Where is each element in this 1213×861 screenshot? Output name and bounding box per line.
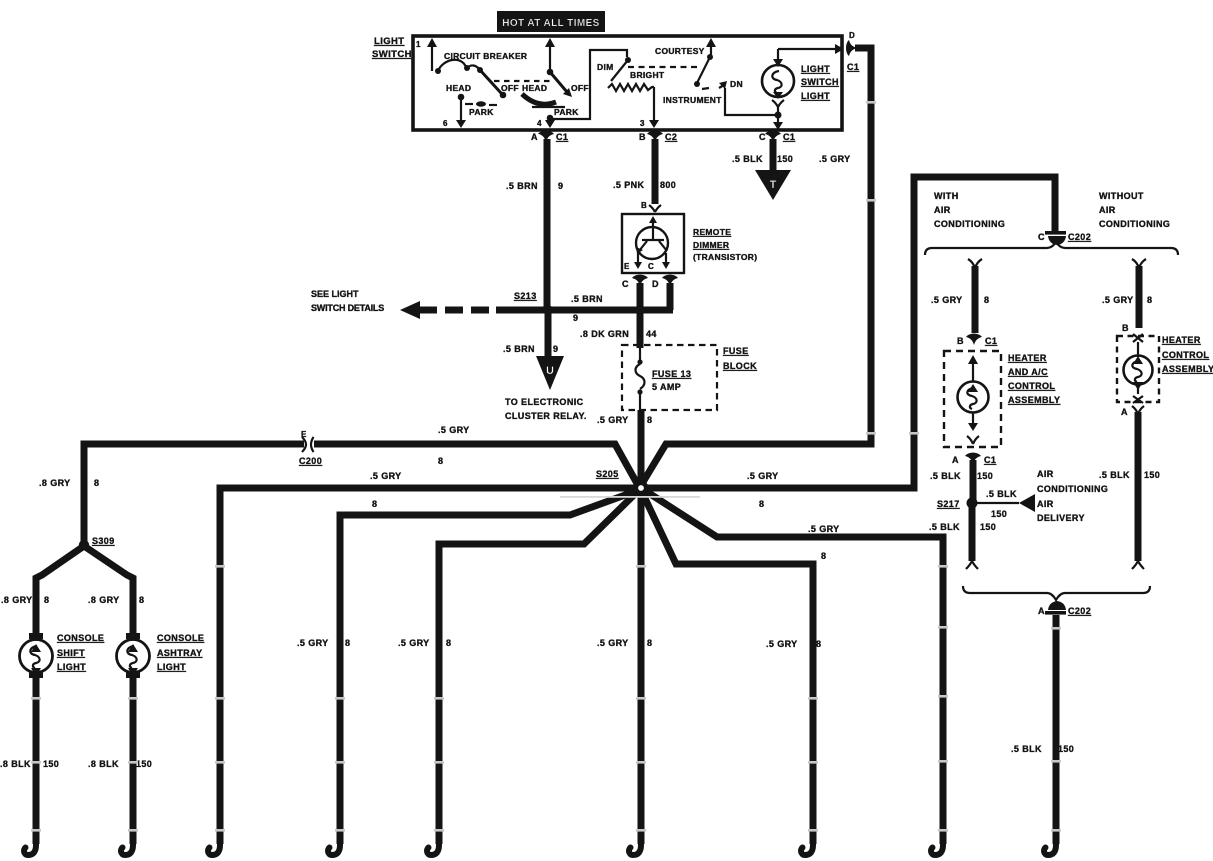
svg-text:BRIGHT: BRIGHT [630, 70, 665, 80]
svg-text:150: 150 [1144, 470, 1160, 480]
svg-text:8: 8 [759, 499, 764, 509]
svg-text:C: C [622, 279, 629, 289]
pin C connector C1 [759, 131, 795, 142]
svg-text:8: 8 [821, 551, 826, 561]
transistor labels [693, 227, 757, 262]
svg-text:ASSEMBLY: ASSEMBLY [1162, 364, 1213, 374]
svg-text:T: T [770, 179, 777, 191]
bottom hook wire ends [24, 840, 1056, 855]
fuse labels [652, 369, 691, 392]
wire S217 down .5 BLK [966, 506, 978, 569]
link dashed dimmer-courtesy [628, 66, 700, 68]
svg-text:(TRANSISTOR): (TRANSISTOR) [693, 252, 757, 262]
bottom riser labels .5 GRY 8 [297, 638, 350, 648]
svg-text:.5 GRY: .5 GRY [819, 154, 851, 164]
svg-text:LIGHT: LIGHT [374, 36, 405, 47]
svg-text:S309: S309 [92, 536, 115, 546]
svg-text:C1: C1 [847, 62, 859, 72]
svg-text:C1: C1 [556, 132, 568, 142]
svg-text:ASHTRAY: ASHTRAY [157, 648, 202, 658]
svg-text:.5 BRN: .5 BRN [503, 344, 535, 354]
svg-text:150: 150 [991, 509, 1007, 519]
svg-text:AIR: AIR [1037, 469, 1054, 479]
pin B connector C2 [639, 131, 677, 142]
svg-text:8: 8 [44, 595, 49, 605]
light switch label [372, 36, 412, 60]
label .5 GRY 8 [808, 524, 840, 561]
scan fold ticks [31, 101, 1061, 832]
svg-text:.5 GRY: .5 GRY [747, 471, 779, 481]
svg-text:.5 GRY: .5 GRY [438, 425, 470, 435]
svg-text:5 AMP: 5 AMP [652, 382, 681, 392]
svg-text:150: 150 [977, 471, 993, 481]
svg-text:SEE LIGHT: SEE LIGHT [311, 289, 359, 299]
wire S217 to air delivery arrow [976, 494, 1035, 512]
label .5 BRN 9 [503, 344, 558, 354]
svg-text:S205: S205 [596, 469, 619, 479]
svg-text:.5 GRY: .5 GRY [398, 638, 430, 648]
svg-text:B: B [641, 201, 647, 210]
svg-text:SWITCH: SWITCH [801, 77, 839, 87]
svg-text:ASSEMBLY: ASSEMBLY [1008, 395, 1060, 405]
svg-text:.5 GRY: .5 GRY [370, 471, 402, 481]
svg-text:A: A [952, 455, 959, 465]
connector C202 pin C [1038, 231, 1091, 245]
svg-text:DN: DN [730, 79, 743, 89]
heater control labels [1162, 335, 1213, 374]
svg-text:.5 GRY: .5 GRY [931, 295, 963, 305]
svg-text:D: D [652, 279, 659, 289]
light switch box [413, 36, 842, 130]
dimmer rheostat [597, 57, 665, 128]
svg-text:C2: C2 [665, 132, 677, 142]
svg-text:AIR: AIR [934, 205, 951, 215]
svg-text:AIR: AIR [1037, 499, 1054, 509]
svg-text:4: 4 [537, 119, 542, 128]
label .5 BRN 9 right of S213 [571, 294, 603, 323]
lamp label [801, 64, 839, 101]
wire S205 lower-left 2 to x439 riser [439, 492, 637, 844]
svg-text:8: 8 [438, 456, 443, 466]
courtesy switch [655, 38, 775, 115]
svg-text:CONSOLE: CONSOLE [57, 633, 104, 643]
svg-text:CONDITIONING: CONDITIONING [1099, 219, 1170, 229]
svg-text:8: 8 [94, 478, 99, 488]
svg-text:CONDITIONING: CONDITIONING [1037, 484, 1108, 494]
brace bottom (A C202) [963, 586, 1150, 600]
label .5 BLK 150 [929, 522, 996, 532]
pole2 switch [522, 38, 627, 128]
svg-text:C1: C1 [985, 336, 997, 346]
svg-text:9: 9 [573, 313, 578, 323]
svg-text:.5 GRY: .5 GRY [808, 524, 840, 534]
wire transistor D down to S213 run [667, 283, 674, 310]
heater and a/c control assembly dashed box [944, 351, 1001, 447]
label .5 PNK 800 [613, 180, 676, 190]
fuse F13 [636, 348, 645, 410]
label .5 BLK 150 [732, 154, 793, 164]
label .5 GRY 8 on C200 wire [438, 425, 470, 466]
lamp heater control [1124, 334, 1153, 403]
svg-text:SWITCH DETAILS: SWITCH DETAILS [311, 303, 384, 313]
wire C202 down .5 BLK [1053, 615, 1060, 844]
wire S213 down .5 BRN [545, 310, 552, 358]
label .5 BLK 150 [930, 471, 993, 481]
air conditioning air delivery label [1037, 469, 1108, 523]
svg-text:1: 1 [416, 40, 421, 49]
wire pin1 to circuit breaker [427, 38, 437, 71]
lamp light switch light [762, 49, 794, 130]
lamp console ashtray light [117, 633, 150, 678]
feed label HOT AT ALL TIMES [497, 11, 605, 32]
wire S205 left horizontal to x220 riser [220, 488, 639, 844]
wire transistor C down [637, 283, 644, 348]
wire without-AC branch down [1132, 259, 1146, 328]
fuse block label [723, 346, 757, 371]
svg-text:150: 150 [1058, 744, 1074, 754]
svg-text:B: B [639, 132, 646, 142]
svg-text:.5 BLK: .5 BLK [930, 471, 961, 481]
svg-text:PARK: PARK [554, 107, 579, 117]
svg-text:CONTROL: CONTROL [1162, 350, 1209, 360]
console shift light label [57, 633, 104, 672]
wire S309 right branch to console ashtray light [84, 546, 133, 635]
wire with-AC branch down [968, 259, 982, 333]
svg-text:8: 8 [446, 638, 451, 648]
pin B connector C1 (heater a/c) [957, 334, 997, 346]
svg-text:HEAD: HEAD [522, 83, 547, 93]
pin D of transistor [652, 275, 678, 289]
svg-text:AIR: AIR [1099, 205, 1116, 215]
svg-text:3: 3 [640, 119, 645, 128]
svg-text:CLUSTER RELAY.: CLUSTER RELAY. [505, 411, 587, 421]
label .5 GRY 8 [370, 471, 402, 509]
wire S205 down x641 riser [638, 490, 645, 844]
svg-text:SWITCH: SWITCH [372, 49, 412, 60]
svg-text:C202: C202 [1068, 606, 1091, 616]
label .5 BRN 9 [506, 181, 563, 191]
label .8 BLK 150 left [0, 759, 59, 769]
svg-text:DIM: DIM [597, 62, 613, 72]
svg-text:AND A/C: AND A/C [1008, 367, 1048, 377]
svg-text:A: A [1121, 407, 1128, 417]
wire pin D down to S205 (.5 GRY) [640, 48, 871, 487]
label .5 GRY 8 [931, 295, 989, 305]
heater and a/c labels [1008, 353, 1060, 405]
svg-text:150: 150 [777, 154, 793, 164]
svg-text:8: 8 [345, 638, 350, 648]
wire .5 BRN from pin A [544, 139, 551, 307]
svg-text:PARK: PARK [469, 107, 494, 117]
svg-text:C: C [648, 262, 654, 271]
label .8 BLK 150 right [88, 759, 152, 769]
svg-text:S213: S213 [514, 291, 537, 301]
arrow U to electronic cluster relay [536, 356, 564, 390]
svg-text:COURTESY: COURTESY [655, 46, 705, 56]
wire S205 lower-right 2 to x813 riser [642, 492, 813, 844]
label .5 BLK 150 (air delivery wire) [986, 489, 1017, 519]
svg-text:.5 BLK: .5 BLK [732, 154, 763, 164]
svg-text:.5 BLK: .5 BLK [929, 522, 960, 532]
svg-text:150: 150 [43, 759, 59, 769]
svg-text:LIGHT: LIGHT [57, 662, 86, 672]
svg-text:A: A [1038, 606, 1045, 616]
svg-text:C1: C1 [783, 132, 795, 142]
wire S205 lower-left 1 to x340 riser [340, 490, 639, 844]
svg-text:WITH: WITH [934, 191, 959, 201]
S213 junction and dashed wire to left arrow [400, 301, 673, 319]
wire fuse to S205 .5 GRY [638, 410, 645, 490]
svg-text:E: E [624, 262, 630, 271]
lamp console shift light [20, 633, 53, 678]
label .5 GRY 8 [597, 415, 652, 425]
svg-text:OFF: OFF [571, 83, 589, 93]
svg-text:.8 GRY: .8 GRY [88, 595, 120, 605]
svg-text:C200: C200 [299, 456, 322, 466]
svg-text:C1: C1 [984, 455, 996, 465]
svg-text:HOT AT ALL TIMES: HOT AT ALL TIMES [502, 18, 600, 29]
label .5 BLK 150 [1099, 470, 1160, 480]
svg-text:.5 BRN: .5 BRN [506, 181, 538, 191]
svg-text:.5 GRY: .5 GRY [597, 638, 629, 648]
svg-text:.8 DK GRN: .8 DK GRN [580, 329, 629, 339]
svg-text:LIGHT: LIGHT [801, 64, 830, 74]
svg-text:LIGHT: LIGHT [801, 91, 830, 101]
svg-text:.5 GRY: .5 GRY [297, 638, 329, 648]
svg-text:TO ELECTRONIC: TO ELECTRONIC [505, 397, 584, 407]
node S205 [596, 469, 648, 495]
wire lamp to pin D [778, 44, 844, 54]
svg-text:WITHOUT: WITHOUT [1099, 191, 1144, 201]
svg-text:800: 800 [660, 180, 676, 190]
svg-text:OFF: OFF [501, 83, 519, 93]
svg-text:HEAD: HEAD [446, 83, 471, 93]
svg-text:C: C [759, 132, 766, 142]
fuse block dashed box [622, 345, 717, 410]
svg-text:.5 GRY: .5 GRY [766, 639, 798, 649]
svg-text:B: B [1122, 323, 1129, 333]
wire C200 run from S205 to S309 riser [84, 444, 639, 546]
svg-text:.5 BLK: .5 BLK [1011, 744, 1042, 754]
svg-text:D: D [849, 31, 855, 40]
svg-text:HEATER: HEATER [1162, 335, 1201, 345]
svg-text:44: 44 [646, 329, 657, 339]
svg-text:8: 8 [372, 499, 377, 509]
svg-text:.8 GRY: .8 GRY [1, 595, 33, 605]
svg-text:9: 9 [558, 181, 563, 191]
svg-text:FUSE 13: FUSE 13 [652, 369, 691, 379]
pin A connector C1 (heater a/c) [952, 453, 996, 465]
wire S205 lower-right 1 to x943 riser [644, 490, 943, 844]
remote dimmer transistor U1 [622, 201, 684, 273]
label .5 GRY 8 [747, 471, 779, 509]
label with air conditioning [934, 191, 1005, 229]
svg-text:CONDITIONING: CONDITIONING [934, 219, 1005, 229]
svg-text:.5 BRN: .5 BRN [571, 294, 603, 304]
node S217 [937, 498, 978, 510]
wire .5 PNK from pin B [652, 139, 659, 204]
svg-text:150: 150 [980, 522, 996, 532]
svg-text:8: 8 [647, 638, 652, 648]
svg-text:FUSE: FUSE [723, 346, 749, 356]
connector C200 [299, 430, 322, 466]
label .8 GRY 8 right branch [88, 595, 144, 605]
brace top (C202 split) [925, 242, 1178, 255]
switch link dashed pole1-pole2 [494, 80, 552, 82]
svg-text:A: A [531, 132, 538, 142]
svg-text:.8 BLK: .8 BLK [88, 759, 119, 769]
svg-text:.8 BLK: .8 BLK [0, 759, 31, 769]
svg-text:HEATER: HEATER [1008, 353, 1047, 363]
pin C of transistor [622, 275, 648, 289]
svg-text:B: B [957, 336, 964, 346]
wire heater control down .5 BLK [1132, 406, 1144, 569]
svg-text:LIGHT: LIGHT [157, 662, 186, 672]
svg-text:CONSOLE: CONSOLE [157, 633, 204, 643]
svg-text:9: 9 [553, 344, 558, 354]
wire S205 right to C202 [643, 177, 1055, 488]
wire S309 left branch to console shift light [36, 546, 84, 635]
svg-text:8: 8 [1147, 295, 1152, 305]
label .5 BLK 150 [1011, 744, 1074, 754]
svg-text:.8 GRY: .8 GRY [39, 478, 71, 488]
pin D connector C1 [846, 31, 859, 72]
console ashtray light label [157, 633, 204, 672]
node S205 center dot [634, 481, 649, 496]
see light switch details label [311, 289, 384, 313]
svg-text:U: U [546, 365, 554, 377]
ground T [755, 170, 791, 200]
svg-text:C202: C202 [1068, 232, 1091, 242]
svg-text:.5 BLK: .5 BLK [986, 489, 1017, 499]
label without air conditioning [1099, 191, 1170, 229]
wire pin A down .5 BLK [970, 460, 977, 500]
svg-text:.5 GRY: .5 GRY [1102, 295, 1134, 305]
svg-text:.5 GRY: .5 GRY [597, 415, 629, 425]
wire console shift light down .8 BLK [33, 678, 40, 844]
svg-text:E: E [301, 430, 307, 439]
svg-text:.5 BLK: .5 BLK [1099, 470, 1130, 480]
svg-text:8: 8 [984, 295, 989, 305]
label .8 DK GRN 44 [580, 329, 657, 339]
label to electronic cluster relay [505, 397, 587, 421]
circuit breaker CB [435, 51, 527, 98]
connector C202 pin A [1038, 601, 1091, 616]
svg-text:DIMMER: DIMMER [693, 240, 729, 250]
pole1 contacts [443, 83, 519, 128]
wire console ashtray light down .8 BLK [130, 678, 137, 844]
label .8 GRY 8 on S309 riser [39, 478, 99, 488]
svg-text:6: 6 [443, 119, 448, 128]
svg-text:BLOCK: BLOCK [723, 361, 757, 371]
wire .5 BLK from pin C [770, 139, 777, 172]
svg-text:8: 8 [816, 639, 821, 649]
svg-text:8: 8 [647, 415, 652, 425]
pin A connector C1 [531, 131, 568, 142]
label .8 GRY 8 left branch [1, 595, 49, 605]
svg-text:DELIVERY: DELIVERY [1037, 513, 1085, 523]
svg-text:REMOTE: REMOTE [693, 227, 731, 237]
lamp heater a/c [958, 355, 989, 444]
svg-text:.5 PNK: .5 PNK [613, 180, 645, 190]
label .5 GRY 8 [1102, 295, 1152, 305]
svg-text:SHIFT: SHIFT [57, 648, 85, 658]
heater control assembly dashed box [1117, 336, 1159, 402]
svg-text:CONTROL: CONTROL [1008, 381, 1055, 391]
svg-text:150: 150 [136, 759, 152, 769]
svg-text:8: 8 [139, 595, 144, 605]
node S309 [79, 536, 115, 550]
svg-text:S217: S217 [937, 499, 960, 509]
svg-text:C: C [1038, 232, 1045, 242]
svg-text:INSTRUMENT: INSTRUMENT [663, 95, 722, 105]
